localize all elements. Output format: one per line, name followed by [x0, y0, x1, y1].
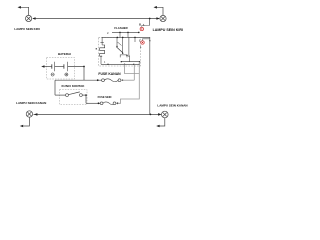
svg-text:FUSE SEIN: FUSE SEIN — [98, 95, 112, 99]
svg-text:LAMPU SEIN KANAN: LAMPU SEIN KANAN — [16, 101, 46, 105]
svg-text:FUSE KANAN: FUSE KANAN — [98, 72, 121, 76]
svg-text:B: B — [139, 23, 141, 26]
svg-text:LAMPU SEIN KIRI: LAMPU SEIN KIRI — [153, 28, 183, 32]
svg-text:KUNCI KONTAK: KUNCI KONTAK — [62, 84, 86, 88]
svg-text:LAMPU SEIN KIRI: LAMPU SEIN KIRI — [14, 27, 40, 31]
svg-text:LAMPU SEIN KANAN: LAMPU SEIN KANAN — [157, 103, 187, 107]
svg-text:BATERAI: BATERAI — [58, 52, 71, 56]
svg-text:FLASHER: FLASHER — [114, 26, 127, 30]
